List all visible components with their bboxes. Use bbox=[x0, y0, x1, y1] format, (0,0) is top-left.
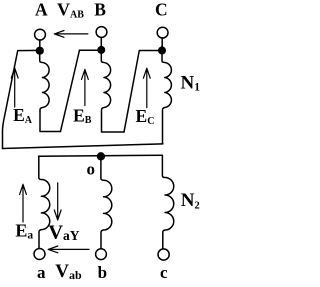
svg-text:o: o bbox=[87, 159, 96, 178]
wire secondary top rail bbox=[39, 155, 163, 156]
svg-text:a: a bbox=[37, 263, 46, 282]
wire diagonal winding A bottom to node B bbox=[61, 50, 102, 131]
winding B (primary N1) bbox=[101, 46, 124, 132]
winding b (secondary N2) bbox=[101, 156, 112, 249]
wire diagonal winding B bottom to node C bbox=[124, 51, 162, 133]
arrow E_A (points up) bbox=[11, 68, 18, 107]
svg-text:b: b bbox=[98, 263, 107, 282]
arrow V_aY (points down) bbox=[54, 183, 61, 220]
arrow E_B (points up) bbox=[82, 69, 89, 105]
arrow V_ab (points left) bbox=[48, 246, 89, 253]
wire stem A circle to dot bbox=[39, 40, 41, 47]
arrow E_a (points up) bbox=[20, 184, 27, 222]
winding C (primary N1) bbox=[162, 46, 171, 144]
svg-text:B: B bbox=[94, 0, 106, 19]
node C junction dot bbox=[158, 47, 166, 55]
node A junction dot bbox=[36, 47, 44, 55]
terminal b circle bbox=[96, 249, 107, 260]
arrow V_AB (points left) bbox=[54, 31, 88, 38]
arrow E_C (points up) bbox=[143, 68, 150, 107]
terminal B circle bbox=[96, 27, 107, 38]
node o junction dot bbox=[97, 152, 105, 160]
wire primary bottom rail bbox=[3, 144, 163, 149]
terminal c circle bbox=[158, 249, 169, 260]
wire stem C circle to dot bbox=[161, 38, 163, 47]
wire left edge and diagonal to node A bbox=[3, 50, 40, 148]
terminal C circle bbox=[157, 27, 168, 38]
terminal A circle bbox=[35, 29, 46, 40]
svg-text:C: C bbox=[155, 0, 168, 19]
svg-text:A: A bbox=[35, 0, 48, 20]
winding A (primary N1) bbox=[40, 47, 61, 132]
winding a (secondary N2) bbox=[39, 156, 50, 248]
svg-text:c: c bbox=[160, 263, 168, 282]
terminal a circle bbox=[34, 249, 45, 260]
wire stem B circle to dot bbox=[100, 37, 102, 46]
node B junction dot bbox=[97, 46, 105, 54]
winding c (secondary N2) bbox=[162, 155, 173, 249]
